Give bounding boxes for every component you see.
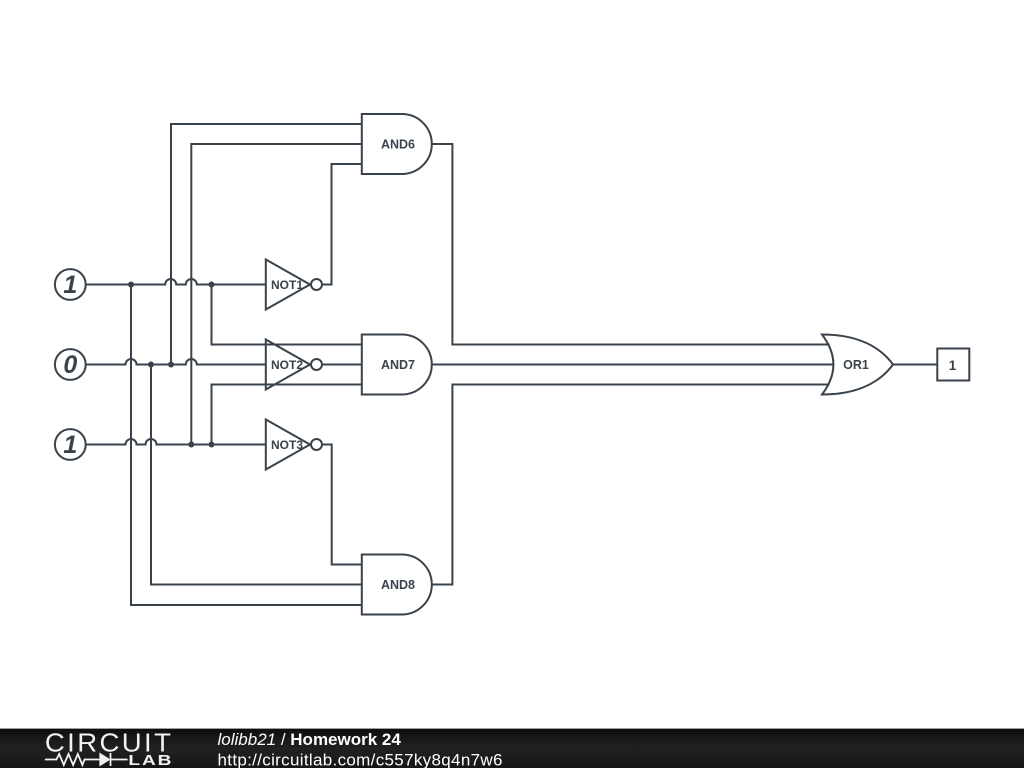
wire from row3 up to AND6 middle input: [191, 144, 361, 445]
input source IN3 value 1: [55, 429, 86, 460]
svg-text:LAB: LAB: [128, 752, 173, 768]
wire NOT3 output to AND8 top input: [322, 445, 362, 565]
svg-text:http://circuitlab.com/c557ky8q: http://circuitlab.com/c557ky8q4n7w6: [218, 751, 503, 768]
output indicator box value 1: [937, 349, 969, 381]
OR gate OR1: [822, 335, 893, 395]
NOT gate NOT1: [266, 260, 322, 310]
svg-text:1: 1: [949, 358, 957, 373]
svg-text:NOT1: NOT1: [271, 278, 303, 292]
NOT gate NOT3: [266, 420, 322, 470]
svg-text:1: 1: [63, 271, 77, 299]
wire from row2 up to AND6 top input: [171, 124, 362, 365]
junction row1 at x211.5: [209, 282, 215, 288]
wire from row3 up to AND7 bottom input: [212, 385, 362, 445]
input source IN2 value 0: [55, 349, 86, 380]
NOT gate NOT2: [266, 340, 322, 390]
wire NOT2 output to AND7 middle input: [322, 364, 362, 366]
AND gate AND8: [362, 555, 432, 615]
wire row2 from IN2 to NOT2 with hops: [86, 359, 266, 365]
wire OR1 output to indicator box: [893, 364, 937, 366]
svg-text:NOT3: NOT3: [271, 438, 303, 452]
junction row1 at x131: [128, 282, 134, 288]
svg-text:AND7: AND7: [381, 358, 415, 372]
wire AND6 output to OR1 top input: [432, 144, 830, 345]
wire from row2 down to AND8 middle input: [151, 365, 362, 585]
footer bar: [0, 729, 1024, 768]
svg-text:0: 0: [63, 351, 77, 379]
svg-text:NOT2: NOT2: [271, 358, 303, 372]
wire NOT1 output to AND6 bottom input: [322, 164, 362, 285]
svg-text:1: 1: [63, 431, 77, 459]
junction row2 at x151: [148, 362, 154, 368]
wire AND8 output to OR1 bottom input: [432, 385, 830, 585]
svg-text:lolibb21 / Homework 24: lolibb21 / Homework 24: [218, 730, 402, 749]
wire AND7 output to OR1 middle input: [432, 364, 833, 366]
junction row2 at x171: [168, 362, 174, 368]
junction row3 at x211.5: [209, 442, 215, 448]
AND gate AND7: [362, 335, 432, 395]
svg-text:AND6: AND6: [381, 138, 415, 152]
wire row3 from IN3 to NOT3 with hops: [86, 439, 266, 445]
wire from row1 down to AND8 bottom input: [131, 285, 362, 606]
junction row3 at x191.3: [188, 442, 194, 448]
wire from row1 down to AND7 top input: [212, 285, 362, 345]
CircuitLab logo resistor and diode symbol: [45, 753, 128, 766]
svg-text:AND8: AND8: [381, 578, 415, 592]
input source IN1 value 1: [55, 269, 86, 300]
wire row1 from IN1 to NOT1 with hops: [86, 279, 266, 284]
svg-text:OR1: OR1: [843, 358, 869, 372]
AND gate AND6: [362, 114, 432, 174]
